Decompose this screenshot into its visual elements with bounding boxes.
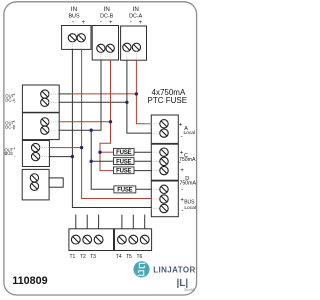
T block leads <box>76 215 145 229</box>
svg-text:IN: IN <box>71 6 77 13</box>
wire negative branch down to fuse 4 <box>91 130 114 189</box>
svg-text:-: - <box>181 187 183 194</box>
svg-text:-: - <box>72 19 74 25</box>
fuse F4 <box>114 186 136 194</box>
svg-text:+: + <box>179 122 183 129</box>
labels T1..T6 <box>69 254 142 260</box>
label IN BUS <box>68 6 85 26</box>
svg-text:+: + <box>138 20 142 26</box>
wire OUT DC-B- to DC-B- vertical <box>59 60 101 130</box>
wire OUT BUS+ (red) <box>49 147 81 149</box>
svg-text:T2: T2 <box>80 254 86 260</box>
connector stub on spare block <box>49 178 63 187</box>
wire A+ feed tail (gray) <box>144 123 151 125</box>
wire DC-B+ vertical, jog to fuse feed (red) <box>100 60 114 171</box>
fuse F2 <box>114 158 135 166</box>
terminal block OUT DC-A <box>22 85 59 112</box>
label OUT DC-B <box>5 119 16 132</box>
terminal block A local <box>151 115 178 143</box>
terminal block OUT BUS <box>22 141 49 167</box>
svg-text:LINJATOR: LINJATOR <box>153 265 195 274</box>
label IN DC-B <box>100 6 114 26</box>
svg-text:T1: T1 <box>69 254 75 260</box>
svg-text:T4: T4 <box>116 254 122 260</box>
svg-text:Local: Local <box>184 205 195 211</box>
svg-text:+: + <box>81 20 85 26</box>
terminal block IN DC-B <box>92 26 118 61</box>
text 4x750mA PTC FUSE <box>148 88 188 105</box>
svg-text:DC-B: DC-B <box>100 14 114 20</box>
wire fuse 1 feed branch (red) <box>100 151 114 153</box>
svg-text:T5: T5 <box>126 254 132 260</box>
terminal block spare (unlabelled) <box>22 169 49 200</box>
label +BUS Local <box>180 196 196 214</box>
terminal block BUS local <box>151 181 178 217</box>
svg-text:BUS: BUS <box>184 199 195 205</box>
svg-text:FUSE: FUSE <box>116 159 131 165</box>
svg-text:BUS: BUS <box>5 151 14 156</box>
junction fuse1 feed <box>98 151 101 154</box>
label +C 750mA <box>179 150 196 167</box>
wire OUT BUS- <box>49 156 72 158</box>
svg-text:36x60: 36x60 <box>184 287 196 292</box>
label OUT BUS <box>5 146 17 159</box>
svg-text:+: + <box>180 167 184 174</box>
label +D 750mA <box>180 167 197 194</box>
svg-text:+: + <box>109 20 113 26</box>
svg-text:Local: Local <box>184 130 195 136</box>
terminal block OUT DC-B <box>22 113 59 140</box>
junction BUS+ tap <box>80 146 83 149</box>
svg-text:-: - <box>181 133 183 140</box>
logo icon <box>134 261 150 277</box>
junction fuse2 feed <box>90 160 93 163</box>
svg-text:PTC FUSE: PTC FUSE <box>148 96 188 105</box>
svg-text:-: - <box>179 160 181 167</box>
svg-text:FUSE: FUSE <box>116 150 131 156</box>
wire OUT DC-B+ horizontal (red) <box>59 121 110 123</box>
junction BUS- tap <box>71 155 74 158</box>
wire OUT DC-A+ horizontal (black stub) <box>59 93 70 95</box>
wire fuse 1 to C+ <box>134 151 151 153</box>
label +A Local <box>179 122 195 140</box>
svg-text:FUSE: FUSE <box>116 169 131 175</box>
svg-text:IN: IN <box>133 6 139 13</box>
wire fuse 2 to C- <box>134 160 151 162</box>
fuse F1 <box>114 148 135 156</box>
terminal block IN DC-A <box>121 26 147 60</box>
svg-text:750mA: 750mA <box>179 157 196 163</box>
junction DC-B+ tap <box>109 120 112 123</box>
svg-text:FUSE: FUSE <box>117 188 132 194</box>
label IN DC-A <box>129 6 143 26</box>
terminal block IN BUS <box>62 26 91 50</box>
svg-text:T3: T3 <box>90 254 96 260</box>
wire fuse 3 to D+ <box>134 170 151 172</box>
wire BUS+ vertical to BUS local (red) <box>82 49 152 198</box>
svg-text:-: - <box>130 19 132 25</box>
svg-text:-: - <box>181 208 183 215</box>
svg-text:110809: 110809 <box>12 275 47 287</box>
svg-text:-: - <box>100 19 102 25</box>
terminal block C/D 750mA <box>151 144 178 180</box>
wire DC-A+ vertical to A local (red) <box>136 60 144 124</box>
wire OUT DC-A- to DC-A- vertical and A local <box>59 101 127 103</box>
junction DC-B- branch <box>90 129 93 132</box>
junction DC-A+ tap <box>135 92 138 95</box>
svg-text:750mA: 750mA <box>180 180 197 186</box>
border frame <box>4 2 197 295</box>
wire fuse 2 feed branch <box>91 160 113 162</box>
label OUT DC-A <box>5 92 16 105</box>
terminal block T1 T2 T3 <box>69 229 114 251</box>
wire BUS- vertical to BUS local <box>72 49 151 207</box>
fuse F3 <box>114 167 135 175</box>
svg-text:IN: IN <box>104 6 110 13</box>
svg-text:T6: T6 <box>136 254 142 260</box>
svg-text:BUS: BUS <box>68 14 79 20</box>
junction DC-A- tap <box>125 101 128 104</box>
wire fuse 4 to D- <box>136 188 152 190</box>
wire OUT DC-A+ horizontal (red) <box>71 93 137 95</box>
terminal block T4 T5 T6 <box>115 229 152 251</box>
